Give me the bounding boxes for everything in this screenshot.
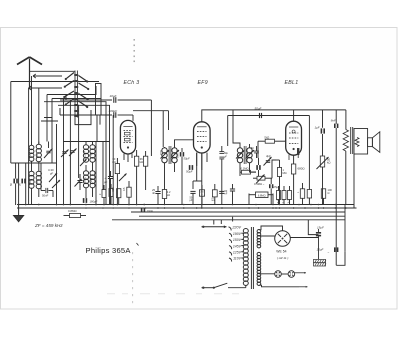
tone pot 50k (317, 156, 331, 205)
bus junction dots (18, 204, 347, 209)
electrolytic 50 left (9, 163, 18, 205)
capacitor pair right of EF9 (219, 146, 228, 205)
svg-text:4μF: 4μF (266, 154, 271, 158)
svg-text:Philips 365A: Philips 365A (86, 246, 132, 255)
svg-text:100µF: 100µF (109, 109, 118, 113)
svg-text:Ω: Ω (328, 191, 330, 195)
antenna (17, 57, 42, 88)
svg-text:kΩ: kΩ (167, 193, 170, 197)
wire v x233 IFT2 feed (233, 110, 240, 146)
resistor 100ohm (321, 183, 332, 205)
ECh3 internals (123, 127, 132, 149)
resistor 50 (143, 151, 147, 190)
wire nest extra a (41, 120, 58, 122)
svg-text:680Ω: 680Ω (298, 167, 306, 171)
electrolytic mid x258.5 (256, 158, 260, 176)
wire route nest 3 (44, 102, 106, 205)
wire v x18.6 (18, 163, 20, 205)
switch lever 3 (63, 91, 74, 98)
svg-text:220V: 220V (231, 226, 241, 230)
wire h mid-left y141.5 (63, 141, 110, 143)
switch lever 7 (79, 94, 89, 101)
coil L5 (83, 142, 88, 163)
svg-text:8nF: 8nF (331, 119, 336, 123)
wire top h3 (11, 81, 99, 83)
coil L3 osc (28, 163, 34, 205)
svg-text:7kΩ: 7kΩ (264, 135, 270, 139)
svg-text:μF: μF (223, 156, 227, 159)
svg-text:nF: nF (152, 191, 156, 195)
resistor 6.8M (249, 192, 273, 198)
speaker driver (368, 138, 373, 147)
rectifier WE54 (275, 231, 291, 247)
lamp link (281, 273, 288, 275)
resistor 36k (134, 150, 143, 205)
switch lever 4 (65, 99, 74, 106)
svg-text:~: ~ (328, 251, 330, 255)
EBL1 cathode resistor 680 (291, 155, 305, 205)
tap 110V (229, 258, 244, 262)
capacitor 4uF right (264, 154, 272, 166)
svg-text:10µF: 10µF (110, 94, 117, 98)
EF9 internals (197, 127, 207, 149)
resistor 0.1M (240, 167, 256, 175)
svg-text:6.8MΩ: 6.8MΩ (258, 193, 266, 197)
IFT1 left coil (162, 147, 167, 184)
wire v x345.8 OT primary top (345, 110, 347, 130)
resistor 0.8M on bus (64, 209, 87, 218)
band switch spine (74, 71, 78, 118)
wire switch drop a (46, 95, 48, 142)
switch lever 1 (65, 73, 74, 81)
wire top h1 (30, 70, 76, 72)
tap 145V (229, 246, 244, 250)
svg-text:ECh 3: ECh 3 (124, 80, 140, 86)
EBL1 internals (289, 127, 298, 150)
hatched resistor psu (314, 259, 327, 266)
wire h y110.7 (133, 110, 169, 112)
svg-text:180pF: 180pF (90, 200, 98, 204)
wire OT primary bottom (345, 151, 347, 205)
svg-text:μF: μF (104, 180, 108, 184)
tube ECh3 (120, 120, 135, 154)
IFT1 core (169, 146, 171, 164)
wire v x163.2 IFT1 in (162, 111, 164, 147)
svg-text:130-4: 130-4 (83, 150, 86, 157)
resistor 3.2k (162, 184, 171, 205)
electrolytic 25uF x271 (269, 178, 280, 204)
bus line y219.8 (112, 219, 345, 221)
svg-text:ZF = 459 kHz: ZF = 459 kHz (34, 223, 63, 228)
wire route nest 7 (59, 108, 61, 115)
wire route nest 4 (58, 105, 110, 205)
capacitor 50uF in line (255, 106, 262, 118)
svg-text:145V: 145V (233, 244, 242, 248)
wire EBL1 anode (293, 110, 295, 121)
switch lever 8 (79, 101, 89, 108)
svg-text:50μ: 50μ (224, 152, 229, 155)
capacitor 1uF (315, 110, 326, 156)
rectifier right lead (290, 237, 318, 239)
wire v x133 top (132, 105, 134, 115)
svg-text:MΩ: MΩ (283, 171, 287, 175)
svg-text:kΩ: kΩ (327, 161, 331, 165)
bus line y212 (131, 211, 345, 213)
svg-text:150V: 150V (233, 238, 242, 242)
label ZF 459kHz (34, 223, 63, 228)
capacitor 50nF left (41, 170, 53, 198)
wire stub x268 (267, 183, 269, 205)
capacitor 50nF under EF9 (190, 191, 196, 204)
tap 125V (229, 252, 244, 256)
svg-text:0.3MΩ ~: 0.3MΩ ~ (254, 182, 265, 186)
heater lead to lamps (259, 273, 275, 275)
resistor 1M right (276, 160, 287, 205)
IFT2 core (244, 146, 246, 164)
svg-text:900: 900 (28, 179, 32, 184)
switch lever 2 (64, 81, 74, 88)
svg-text:0.8MΩ: 0.8MΩ (68, 209, 77, 213)
tap 150V (229, 239, 244, 243)
wire IFT1 sec to EF9 grid (175, 140, 194, 144)
trimmer C-b 3-30pF (48, 168, 57, 182)
IFT1 labels (161, 149, 180, 158)
wire nest extra b (44, 118, 52, 122)
wire v x258 grid (257, 141, 259, 158)
svg-text:( AZ 11 ): ( AZ 11 ) (277, 256, 288, 260)
mains switch (202, 283, 246, 289)
electrolytic on bus left-mid (83, 198, 98, 203)
resistor 500k (112, 187, 121, 205)
svg-text:kΩ: kΩ (112, 160, 116, 164)
capacitor 8nF (331, 110, 339, 128)
tap 190V (229, 233, 244, 237)
svg-text:15μF: 15μF (317, 226, 324, 230)
bus line y208 (17, 207, 357, 209)
svg-text:50nF: 50nF (42, 194, 49, 198)
speaker cone (372, 132, 379, 153)
wire x343.7 v (343, 219, 345, 221)
trimmer C-a (44, 142, 53, 159)
svg-text:0.2: 0.2 (28, 154, 32, 158)
transformer primary winding (243, 227, 248, 286)
coil L8 (90, 165, 95, 197)
wire v x249 d (248, 194, 250, 206)
wire h mid-left y163 (11, 162, 57, 164)
IFT1 right coil (172, 144, 177, 172)
rectifier top-right loop (282, 226, 284, 231)
resistor 0.1M box under EF9 (212, 184, 218, 205)
IFT1 trimmer right (171, 150, 180, 159)
wire v x272 net (272, 160, 276, 178)
svg-text:500: 500 (112, 187, 115, 192)
wire top h4 with chevron (29, 86, 63, 90)
fold crease dots top (134, 39, 135, 62)
capacitor 15uF b (317, 247, 339, 254)
wire switch drop e (28, 88, 30, 205)
IFT2 left coil (237, 146, 242, 176)
wire v x103 (102, 142, 104, 191)
wire v x25.7 (25, 163, 27, 205)
svg-text:3500: 3500 (178, 152, 180, 158)
coil L6 (90, 142, 95, 166)
wire v x70.4 (69, 102, 71, 205)
IFT1 trimmer left (161, 150, 170, 159)
output transformer primary (343, 130, 348, 152)
svg-text:50μF: 50μF (255, 106, 262, 110)
HV lead to rectifier left (259, 235, 275, 237)
speaker frame bottom lead (353, 154, 355, 208)
label WE54 (276, 250, 288, 260)
wire x276 v (275, 160, 277, 205)
coil L7 (83, 165, 88, 198)
trimmer under ECh3 (119, 174, 127, 182)
capacitor 15uF a (316, 226, 324, 260)
transformer secondary LV (257, 252, 261, 285)
switch lever 6 (79, 83, 90, 90)
wire v x41 (40, 163, 42, 170)
wire box leads (97, 115, 100, 142)
svg-text:110V: 110V (233, 257, 242, 261)
tube EBL1 (286, 121, 302, 155)
osc coil box (96, 84, 102, 116)
svg-text:0.1MΩ: 0.1MΩ (241, 167, 249, 171)
IFT2 trimmer left (236, 150, 245, 159)
wire screen h y115.5 (228, 115, 310, 117)
wire v x66 stub (65, 95, 67, 100)
wire switch drop d (38, 88, 40, 145)
electrolytic 50b left (17, 179, 25, 186)
wire v x113 drop (112, 115, 114, 205)
capacitor 25nF (152, 186, 161, 205)
wire route nest 1 (47, 86, 96, 95)
wire v x227.7 (227, 116, 229, 147)
grid capacitor 100uF (60, 109, 133, 118)
svg-text:260-1: 260-1 (83, 176, 86, 183)
svg-text:125V: 125V (233, 251, 242, 255)
svg-text:kΩ: kΩ (140, 160, 144, 164)
bus line y204.5 (17, 204, 354, 206)
wire route nest 5 (75, 110, 91, 125)
svg-text:EF9: EF9 (198, 80, 208, 86)
fold crease dots bottom (131, 252, 134, 303)
wire v x309.4 (308, 116, 310, 185)
wire v x56.5 (56, 124, 58, 205)
output transformer secondary (355, 138, 359, 147)
trimmer C-f (80, 159, 87, 166)
coil L2 aerial (35, 142, 41, 164)
HV lead to rectifier top (259, 226, 283, 231)
wire switch drop b (51, 99, 53, 164)
resistor 0.5M (123, 181, 131, 205)
wire v x273 d (272, 194, 274, 206)
wire IFT2 sec to EBL1 grid (250, 168, 257, 172)
svg-text:WE 54: WE 54 (276, 250, 286, 254)
wire antenna left vertical (10, 82, 12, 164)
psu loop bottom (308, 235, 336, 263)
title Philips 365A (86, 243, 139, 255)
trimmer C-c (52, 180, 60, 188)
bus line y216.2 (139, 215, 345, 217)
svg-text:000: 000 (35, 179, 39, 184)
EF9 cathode wires (193, 153, 202, 208)
wire EF9 anode up (202, 110, 346, 122)
wire v drops to psu (214, 217, 233, 225)
resistor R-l2 (109, 184, 113, 205)
wire v x336 long (335, 128, 337, 265)
secondary bottom lead (259, 285, 308, 288)
output transformer core (351, 127, 353, 154)
wire psu right v x308 (308, 220, 318, 235)
electrolytic 10nF on bus (141, 208, 153, 213)
psu right vertical x345 (336, 205, 345, 266)
component box trio 80-1.2-0.1uF (277, 186, 292, 205)
transformer core (251, 227, 253, 289)
EBL1 side pins (289, 148, 299, 160)
capacitor 50nF right of IFT2 (251, 146, 259, 158)
tube label EF9 (198, 80, 208, 86)
capacitor 50nF x221.8 low (219, 190, 228, 196)
wire v x78.6 (78, 105, 80, 178)
wire v x60 stub (59, 108, 61, 115)
resistor R-l1 (99, 185, 106, 205)
dial lamp 2 (288, 271, 295, 278)
switch lever 5 (79, 76, 89, 83)
wire v x63.5 (63, 99, 65, 206)
resistor 200 box under EF9 (199, 185, 204, 205)
svg-text:EBL1: EBL1 (285, 80, 299, 86)
faint bottom smudges (107, 293, 239, 294)
resistor 30k (112, 157, 119, 205)
resistor x309.4 (307, 184, 311, 205)
wire switch drop c (31, 76, 33, 146)
svg-text:190V: 190V (233, 232, 242, 236)
IFT2 right coil (247, 144, 252, 168)
mains lead top 220V with arrow (202, 225, 232, 230)
wire v x168.5 (168, 111, 170, 130)
resistor 0.3M with pot arrow (253, 175, 272, 186)
electrolytic 50uF mid (186, 165, 193, 173)
electrolytic 50uF left of EF9 (180, 148, 190, 205)
wire route nest 2 (52, 99, 101, 116)
tube label ECh 3 (124, 80, 140, 86)
svg-text:15μF: 15μF (317, 248, 324, 252)
padder capacitor (75, 174, 83, 190)
wire top h2 with chevron (33, 74, 62, 78)
wire ECh3 pins down (124, 154, 132, 162)
IFT2 trimmer right (246, 150, 255, 159)
resistor 7k grid (258, 135, 286, 143)
wire v x151.4 (150, 100, 152, 156)
dial lamp 1 (275, 271, 282, 278)
svg-text:50μF: 50μF (186, 170, 193, 174)
svg-text:960: 960 (35, 153, 39, 158)
grid capacitor 10uF (60, 94, 151, 103)
wire route nest 6 (65, 95, 67, 100)
coil L4 osc (35, 163, 41, 197)
wire v x144 (143, 100, 145, 111)
svg-text:50μF: 50μF (184, 157, 190, 161)
svg-text:1μF: 1μF (315, 126, 320, 130)
resistor x302 (298, 183, 305, 205)
capacitor 50nF bus x232 (230, 184, 235, 205)
trimmer C-e (69, 149, 77, 157)
ground (14, 205, 24, 222)
lamp right arrow (295, 272, 306, 274)
svg-text:200: 200 (90, 177, 93, 182)
wire ECh3 anode top (132, 115, 134, 121)
EF9 pins down (197, 153, 207, 170)
svg-text:3500: 3500 (161, 149, 163, 155)
wire v x96 drop (95, 142, 97, 206)
speaker frame (354, 129, 368, 155)
capacitor 4uF under ECh3 (104, 171, 113, 205)
transformer secondary HV (257, 230, 261, 248)
coil L1 aerial (28, 142, 34, 164)
tap labels (231, 226, 241, 261)
tube EF9 (194, 122, 211, 153)
trimmer C-d (61, 150, 69, 158)
svg-text:pF: pF (50, 171, 54, 175)
tube label EBL1 (285, 80, 299, 86)
